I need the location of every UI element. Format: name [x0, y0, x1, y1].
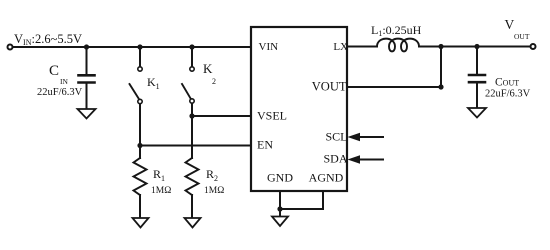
arrow SCL [348, 133, 384, 141]
node: CIN junction [84, 44, 89, 49]
svg-text:VSEL: VSEL [257, 109, 287, 123]
svg-text:COUT: COUT [495, 77, 519, 89]
wire: EN [140, 145, 251, 147]
capacitor C_OUT [469, 47, 485, 109]
svg-text:C: C [49, 63, 59, 79]
node: VSEL junction [189, 113, 194, 118]
arrow SDA [348, 155, 384, 163]
node: K2 top junction [189, 44, 194, 49]
svg-text:R2: R2 [206, 167, 218, 183]
svg-text:VIN:2.6~5.5V: VIN:2.6~5.5V [14, 32, 82, 47]
ground (C_IN) [78, 109, 96, 119]
node: K1 top junction [137, 44, 142, 49]
svg-text:EN: EN [257, 138, 273, 152]
svg-text:22uF/6.3V: 22uF/6.3V [37, 87, 83, 98]
svg-text:VIN: VIN [259, 41, 279, 53]
output terminal VOUT [531, 44, 536, 49]
wire: GND-AGND link [280, 208, 323, 210]
svg-text:OUT: OUT [514, 32, 530, 41]
wire: GND pin down [279, 191, 281, 209]
wire: VSEL [192, 115, 251, 117]
svg-text:AGND: AGND [309, 171, 344, 185]
wire: AGND pin down [322, 191, 324, 209]
capacitor C_IN [79, 47, 95, 109]
svg-text:LX: LX [333, 41, 348, 53]
svg-text:VOUT: VOUT [312, 80, 347, 94]
wire: LX [347, 46, 377, 48]
svg-text:SCL: SCL [325, 130, 347, 144]
wire: K2 to R2 (through VSEL node, crossing EN) [191, 104, 193, 159]
svg-text:2: 2 [212, 77, 216, 86]
wire: to ground symbol [279, 209, 281, 216]
svg-text:K: K [203, 61, 213, 76]
svg-text:GND: GND [267, 171, 293, 185]
node: GND junction [277, 206, 282, 211]
wire: K1 to R1 (through EN node) [139, 104, 141, 158]
wire: link down to VOUT [440, 47, 442, 88]
resistor R2 [186, 158, 199, 195]
svg-text:1MΩ: 1MΩ [151, 186, 171, 196]
svg-text:SDA: SDA [323, 152, 347, 166]
svg-text:R1: R1 [153, 167, 165, 183]
svg-text:L1:0.25uH: L1:0.25uH [371, 23, 422, 38]
wire: L1 to output terminal [419, 46, 531, 48]
input terminal VIN [8, 45, 13, 50]
switch K2 [182, 47, 194, 103]
inductor L1 [377, 39, 419, 52]
node: LX/VOUT link top [438, 44, 443, 49]
ground (GND/AGND) [272, 217, 288, 227]
svg-text:IN: IN [60, 77, 68, 86]
wire: R1 to ground [139, 195, 141, 218]
op-amp U1 (regulator IC body) [251, 27, 347, 191]
ground (R1) [133, 218, 149, 228]
svg-text:K1: K1 [147, 75, 160, 91]
wire: VOUT [347, 86, 441, 88]
node: EN junction [137, 143, 142, 148]
resistor R1 [134, 158, 147, 195]
svg-text:22uF/6.3V: 22uF/6.3V [485, 89, 531, 100]
svg-text:1MΩ: 1MΩ [204, 186, 224, 196]
node: VOUT corner [438, 84, 443, 89]
wire: R2 to ground [191, 195, 193, 218]
wire: VIN top rail [13, 46, 251, 48]
node: COUT junction [474, 44, 479, 49]
svg-text:V: V [505, 17, 515, 32]
switch K1 [130, 47, 143, 104]
ground (C_OUT) [468, 108, 486, 118]
ground (R2) [185, 218, 201, 228]
